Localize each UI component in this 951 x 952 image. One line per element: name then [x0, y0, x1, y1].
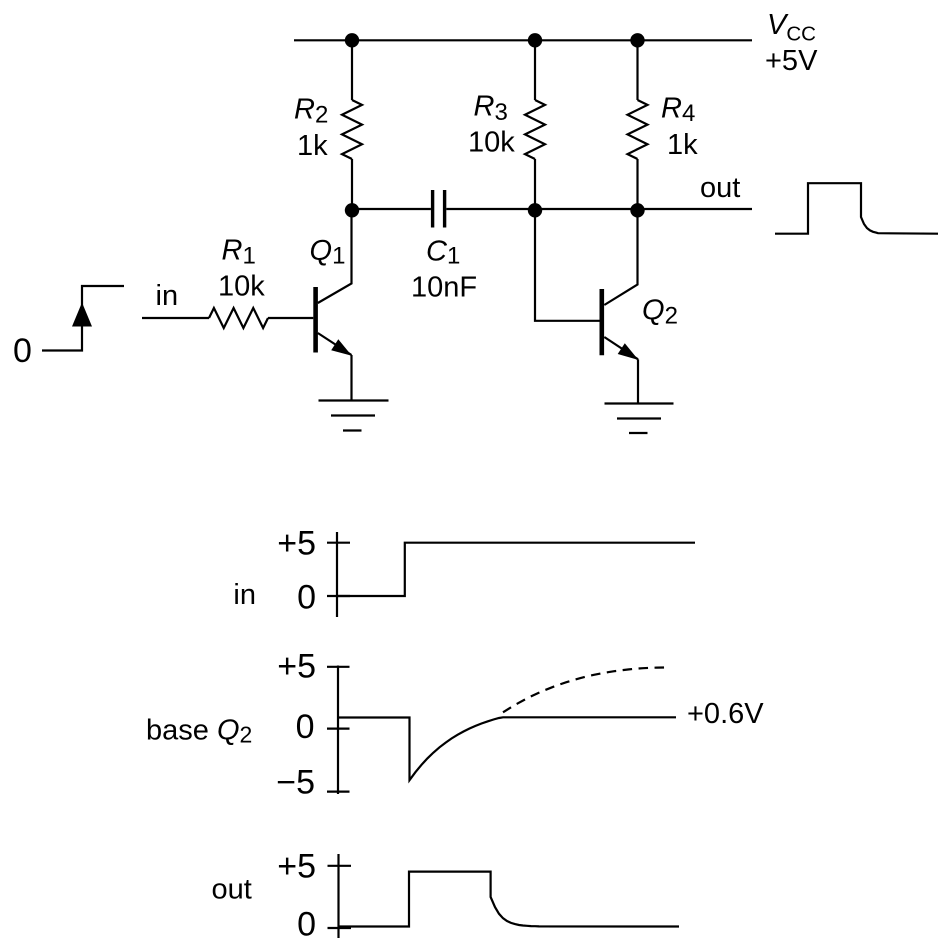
svg-text:+5V: +5V [765, 45, 818, 77]
wire node row left (R2 collector node to C1) [352, 208, 431, 210]
svg-text:0: 0 [297, 906, 316, 944]
input step arrow [72, 303, 92, 327]
svg-text:C1: C1 [426, 236, 460, 270]
plot2 tick -5 [327, 790, 350, 792]
svg-text:+5: +5 [277, 848, 316, 886]
wire Q1 emitter to ground [350, 355, 352, 400]
svg-text:R1: R1 [222, 235, 256, 270]
svg-text:out: out [212, 874, 252, 906]
node junction dot rail-R4 [630, 33, 644, 47]
plot2 tick 0 [327, 727, 350, 729]
svg-text:+0.6V: +0.6V [687, 698, 764, 730]
wire input to R1 [142, 317, 209, 319]
plot3 waveform out pulse [339, 872, 680, 927]
svg-text:R4: R4 [661, 93, 695, 128]
wire Q2 base from node [535, 212, 600, 321]
plot1 axis (in) [336, 532, 338, 617]
svg-text:Q2: Q2 [642, 295, 678, 330]
plot1 tick +5 [327, 542, 350, 544]
svg-text:+5: +5 [277, 648, 316, 686]
plot3 axis (out) [337, 854, 339, 938]
node junction dot rail-R2 [345, 33, 359, 47]
plot3 tick +5 [328, 865, 352, 867]
capacitor C1 [433, 190, 445, 228]
plot2 dashed exponential continuation [503, 667, 669, 712]
wire node row right (C1 to out) [446, 208, 752, 210]
resistor R4 [628, 40, 648, 209]
plot2 waveform solid base voltage [338, 717, 676, 780]
ground Q1 [319, 401, 389, 431]
svg-text:10nF: 10nF [411, 272, 477, 304]
svg-text:+5: +5 [277, 525, 316, 563]
wire R1 to Q1 base [268, 317, 313, 319]
input step source symbol [42, 286, 124, 351]
node junction dot rail-R3 [528, 33, 542, 47]
wire Q2 emitter to ground [637, 359, 639, 403]
svg-text:0: 0 [13, 332, 32, 370]
svg-text:Q1: Q1 [310, 235, 346, 270]
output pulse sketch top right [775, 183, 938, 234]
plot2 tick +5 [327, 666, 350, 668]
node junction dot out [630, 203, 644, 217]
svg-text:R2: R2 [294, 94, 328, 129]
svg-text:in: in [233, 579, 256, 611]
plot2 axis (base Q2) [337, 666, 339, 795]
svg-text:VCC: VCC [767, 9, 816, 46]
svg-text:0: 0 [297, 579, 316, 617]
ground Q2 [605, 404, 674, 434]
svg-text:base Q2: base Q2 [146, 715, 252, 748]
svg-text:1k: 1k [667, 129, 698, 161]
svg-text:1k: 1k [297, 130, 328, 162]
node junction dot Q2 base feed [528, 203, 542, 217]
transistor Q1 [316, 212, 352, 356]
plot1 tick 0 [327, 595, 350, 597]
plot1 waveform in step [337, 543, 695, 596]
svg-text:10k: 10k [218, 271, 265, 303]
svg-text:0: 0 [296, 708, 315, 746]
resistor R3 [525, 40, 545, 209]
transistor Q2 [602, 212, 639, 360]
wire Vcc rail [294, 39, 752, 41]
svg-text:10k: 10k [468, 127, 515, 159]
svg-text:out: out [700, 172, 740, 204]
svg-text:−5: −5 [276, 764, 315, 802]
node junction dot Q1 collector [345, 203, 359, 217]
resistor R1 [209, 308, 268, 328]
resistor R2 [342, 40, 362, 209]
svg-text:in: in [156, 280, 179, 312]
plot3 tick 0 [328, 927, 352, 929]
svg-text:R3: R3 [474, 91, 508, 127]
